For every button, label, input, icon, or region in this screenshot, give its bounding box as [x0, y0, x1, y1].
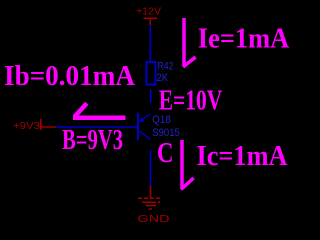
svg-text:Ie=1mA: Ie=1mA	[198, 24, 290, 55]
label Ie=1mA	[198, 24, 290, 55]
wire base blue segment	[56, 126, 137, 128]
label C	[157, 138, 174, 169]
wire collector to ground	[150, 150, 152, 186]
label B=9V3	[62, 125, 123, 156]
transistor Q18 base bar	[137, 113, 139, 141]
power +12V label	[136, 7, 161, 18]
transistor Q18 designator	[152, 114, 171, 126]
wire +12V to R42	[149, 25, 151, 62]
ground label GND	[138, 214, 170, 225]
svg-text:R42: R42	[158, 61, 174, 73]
svg-text:E=10V: E=10V	[159, 86, 223, 117]
svg-text:Ib=0.01mA: Ib=0.01mA	[4, 61, 136, 92]
svg-text:+9V3: +9V3	[13, 121, 40, 132]
svg-text:+12V: +12V	[136, 7, 161, 18]
label Ib=0.01mA	[4, 61, 136, 92]
transistor Q18 part S9015	[152, 127, 180, 139]
terminal +9V3 tick	[40, 119, 42, 130]
svg-text:2K: 2K	[157, 72, 169, 84]
label Ic=1mA	[197, 141, 289, 172]
current arrow Ie	[183, 18, 196, 67]
transistor Q18 collector	[139, 131, 151, 140]
svg-text:C: C	[157, 138, 174, 169]
resistor R42 designator	[158, 61, 174, 73]
svg-text:B=9V3: B=9V3	[62, 125, 123, 156]
resistor value 2K	[157, 72, 169, 84]
transistor Q18 emitter	[139, 114, 151, 123]
current arrow Ib	[73, 103, 126, 118]
wire R42 to emitter	[150, 89, 152, 103]
svg-text:Ic=1mA: Ic=1mA	[197, 141, 289, 172]
wire base red segment	[42, 126, 57, 128]
ground stem	[150, 186, 152, 198]
power +12V bar symbol	[144, 18, 158, 26]
current arrow Ic	[181, 140, 194, 190]
resistor R42	[147, 62, 156, 85]
svg-text:S9015: S9015	[152, 127, 180, 139]
ground bars	[138, 198, 162, 209]
net label +9V3	[13, 121, 40, 132]
svg-text:GND: GND	[138, 214, 170, 225]
label E=10V	[159, 86, 223, 117]
